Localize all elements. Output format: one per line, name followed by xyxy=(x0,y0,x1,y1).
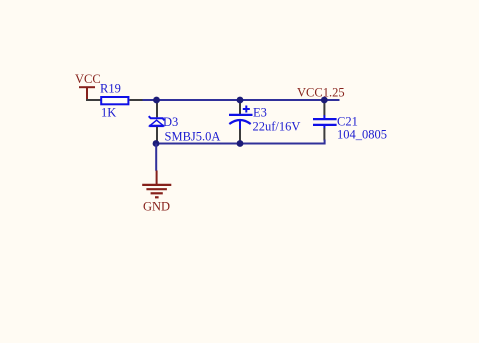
pin D3 top xyxy=(156,100,158,117)
pin C21 bottom xyxy=(323,128,325,141)
pin E3 bottom xyxy=(239,129,241,143)
wire to ground xyxy=(155,144,157,171)
ground xyxy=(142,171,171,198)
svg-text:104_0805: 104_0805 xyxy=(337,127,387,141)
svg-text:R19: R19 xyxy=(100,82,121,96)
svg-text:E3: E3 xyxy=(253,106,267,120)
svg-text:C21: C21 xyxy=(337,114,358,128)
pin E3 top xyxy=(239,100,241,114)
svg-text:1K: 1K xyxy=(101,106,116,120)
svg-text:VCC: VCC xyxy=(75,72,101,86)
diode D3 zener xyxy=(149,116,165,126)
svg-text:GND: GND xyxy=(143,199,170,213)
svg-text:VCC1.25: VCC1.25 xyxy=(297,85,345,99)
wire top horizontal xyxy=(143,99,340,101)
pin R19 right xyxy=(130,99,143,101)
svg-text:D3: D3 xyxy=(163,115,178,129)
junction at D3 bottom xyxy=(153,140,160,147)
wire VCC to R19 xyxy=(86,99,101,101)
wire bottom horizontal xyxy=(156,140,325,144)
svg-text:SMBJ5.0A: SMBJ5.0A xyxy=(165,130,221,144)
pin D3 bottom xyxy=(156,127,158,143)
junction at E3 top xyxy=(237,97,244,104)
resistor R19 body xyxy=(101,97,128,104)
power symbol VCC xyxy=(79,87,95,100)
pin C21 top xyxy=(323,100,325,116)
junction at R19/D3 xyxy=(153,97,160,104)
capacitor C21 xyxy=(313,115,337,128)
capacitor E3 polarized xyxy=(229,106,253,130)
svg-text:22uf/16V: 22uf/16V xyxy=(253,119,301,133)
junction at VCC1.25 xyxy=(321,97,328,104)
junction at E3 bottom xyxy=(237,140,244,147)
